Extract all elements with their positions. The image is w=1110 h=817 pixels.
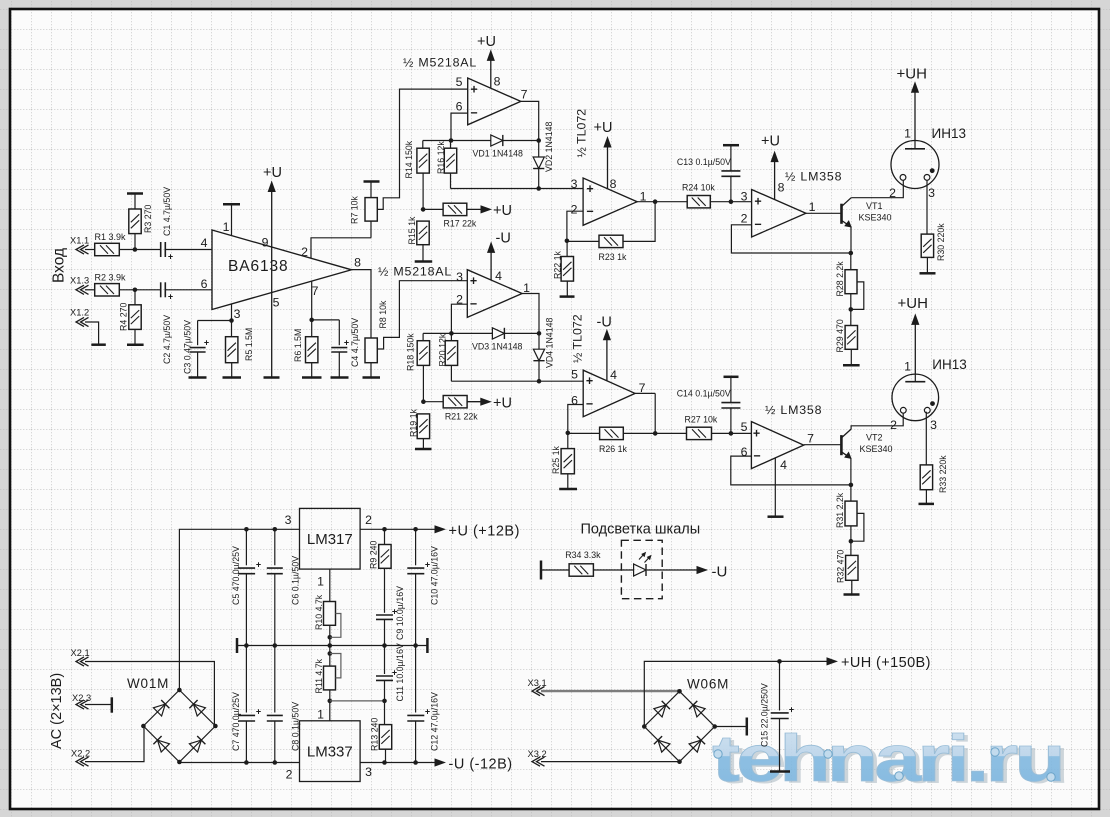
power +U arrow U3a xyxy=(594,120,613,189)
pin 2 feedback wire U4a xyxy=(731,225,853,256)
wire +UH rail xyxy=(644,659,828,726)
svg-text:6: 6 xyxy=(201,277,208,291)
nixie tube HL2 IN-13 xyxy=(892,357,967,421)
svg-text:R31 2.2k: R31 2.2k xyxy=(835,492,845,528)
svg-text:1: 1 xyxy=(904,359,911,373)
svg-text:R10 4.7k: R10 4.7k xyxy=(314,594,324,630)
svg-text:2: 2 xyxy=(890,418,897,432)
svg-text:+U: +U xyxy=(477,34,496,50)
wire LM317 adj xyxy=(329,569,331,601)
wire +12V input rail xyxy=(179,527,299,690)
svg-text:C6 0.1µ/50V: C6 0.1µ/50V xyxy=(291,556,301,605)
wire VD1 to output xyxy=(503,138,541,143)
svg-text:4: 4 xyxy=(780,458,787,472)
svg-text:AC (2×13В): AC (2×13В) xyxy=(49,673,65,749)
svg-text:1: 1 xyxy=(223,220,230,234)
output wire U4a xyxy=(806,212,841,214)
power +U(+12V) arrow xyxy=(435,524,520,540)
pin 6 wire U2a xyxy=(449,113,468,143)
svg-text:5: 5 xyxy=(741,420,748,434)
svg-text:2: 2 xyxy=(286,767,293,781)
op-amp U3a 1/2 TL072 xyxy=(575,109,638,226)
svg-text:1: 1 xyxy=(904,126,911,140)
svg-text:7: 7 xyxy=(639,381,646,395)
capacitor C10 47.0u/16V xyxy=(407,529,439,645)
svg-text:R22 1k: R22 1k xyxy=(553,251,563,279)
svg-text:+U: +U xyxy=(493,396,512,412)
resistor R17 22k xyxy=(423,203,477,228)
power +U arrow U2a xyxy=(477,34,496,88)
power +U arrow U4a xyxy=(761,134,780,200)
wire to TL072-2 pin5 xyxy=(451,380,583,382)
wire R28 tap xyxy=(851,282,864,310)
tube HL1 pin labels xyxy=(889,126,935,200)
resistor R15 1k xyxy=(407,216,432,261)
VT2 collector wire xyxy=(851,412,903,430)
terminal bar backlight xyxy=(541,561,569,580)
connector X2.1 xyxy=(71,648,215,726)
svg-text:½ TL072: ½ TL072 xyxy=(571,314,585,363)
svg-text:R13 240: R13 240 xyxy=(370,718,380,751)
svg-text:-U: -U xyxy=(597,315,612,331)
pin 6 label xyxy=(201,277,208,291)
svg-text:1: 1 xyxy=(523,281,530,295)
svg-text:R33 220k: R33 220k xyxy=(938,455,948,493)
svg-text:½ M5218AL: ½ M5218AL xyxy=(378,265,452,279)
svg-text:C14 0.1µ/50V: C14 0.1µ/50V xyxy=(677,388,731,398)
wire R2 to C2 xyxy=(119,288,160,293)
svg-text:+U: +U xyxy=(493,203,512,219)
svg-text:2: 2 xyxy=(365,513,372,527)
svg-text:VD4 1N4148: VD4 1N4148 xyxy=(545,318,555,368)
capacitor C6 0.1u/50V xyxy=(267,529,301,645)
svg-text:R18 150k: R18 150k xyxy=(406,333,416,371)
LED HL3 with dashed box xyxy=(621,540,662,598)
regulator LM337 xyxy=(300,721,361,782)
svg-text:+: + xyxy=(204,338,209,348)
svg-text:+: + xyxy=(753,426,760,440)
svg-text:X2.1: X2.1 xyxy=(71,648,90,658)
resistor R31 2.2k xyxy=(835,485,857,544)
connector X3.1 xyxy=(528,678,680,696)
power -U arrow U2b xyxy=(488,231,511,281)
svg-text:ИН13: ИН13 xyxy=(932,126,966,141)
svg-text:+: + xyxy=(789,705,794,715)
resistor R20 12k xyxy=(438,333,458,381)
pin 1 terminal xyxy=(223,204,240,235)
wire LED to -U xyxy=(647,569,697,571)
svg-text:LM317: LM317 xyxy=(307,531,353,548)
connector X1.2 xyxy=(70,308,106,345)
svg-text:−: − xyxy=(586,397,593,411)
output wire U2b xyxy=(522,294,539,334)
resistor R34 3.3k xyxy=(565,550,601,576)
svg-text:BA6138: BA6138 xyxy=(228,258,289,275)
capacitor C13 0.1u/50V xyxy=(677,145,741,202)
wire R10 tap xyxy=(330,614,341,638)
svg-text:R8 10k: R8 10k xyxy=(378,300,388,328)
power +U arrow BA6138 pin 9 xyxy=(262,165,282,378)
svg-text:C7 470.0µ/25V: C7 470.0µ/25V xyxy=(231,692,241,751)
svg-text:R24 10k: R24 10k xyxy=(682,183,715,193)
wire mid ground rail xyxy=(237,638,427,653)
svg-text:2: 2 xyxy=(741,211,748,225)
svg-text:R16 12k: R16 12k xyxy=(436,141,446,174)
wire R10 to R11 xyxy=(328,637,333,666)
svg-text:+U: +U xyxy=(761,134,780,150)
svg-text:1: 1 xyxy=(809,200,816,214)
svg-text:+: + xyxy=(586,182,593,196)
watermark tehnari.ru xyxy=(712,721,1066,797)
svg-text:X1.3: X1.3 xyxy=(70,276,89,286)
resistor R1 3.9k xyxy=(95,232,127,256)
svg-text:8: 8 xyxy=(610,177,617,191)
wire R31 tap xyxy=(851,513,864,541)
svg-text:R4 270: R4 270 xyxy=(119,303,129,331)
svg-text:+: + xyxy=(168,252,173,262)
pin labels U2b xyxy=(456,269,530,307)
pin 4 ground U4b xyxy=(768,458,784,517)
power -U arrow U3b xyxy=(597,315,612,381)
svg-text:8: 8 xyxy=(494,74,501,88)
svg-text:R30 220k: R30 220k xyxy=(936,223,946,261)
svg-text:R3 270: R3 270 xyxy=(143,205,153,233)
svg-text:3: 3 xyxy=(928,186,935,200)
resistor R3 270 xyxy=(127,194,153,250)
resistor R16 12k xyxy=(436,141,457,189)
svg-text:½ TL072: ½ TL072 xyxy=(575,109,589,158)
wire to TL072 pin3 xyxy=(451,188,584,190)
svg-text:−: − xyxy=(470,297,477,311)
wire -12V rail xyxy=(179,760,436,765)
wire feedback row U2b xyxy=(423,332,492,334)
power -U arrow backlight xyxy=(697,564,727,581)
svg-text:R17 22k: R17 22k xyxy=(444,219,477,229)
svg-text:4: 4 xyxy=(610,368,617,382)
tube HL2 pin labels xyxy=(890,359,937,432)
svg-text:C4 4.7µ/50V: C4 4.7µ/50V xyxy=(350,318,360,367)
svg-text:−: − xyxy=(470,106,477,120)
diode VD1 1N4148 xyxy=(473,135,523,159)
resistor R10 4.7k xyxy=(314,594,336,639)
pin labels U4b xyxy=(741,420,815,472)
svg-text:5: 5 xyxy=(571,367,578,381)
svg-text:+U: +U xyxy=(263,165,282,181)
op-amp U4a 1/2 LM358 xyxy=(752,170,843,238)
resistor R29 470 xyxy=(835,309,860,365)
svg-text:R25 1k: R25 1k xyxy=(551,446,561,474)
resistor R27 10k xyxy=(685,415,718,440)
svg-text:VT2: VT2 xyxy=(866,433,883,443)
svg-text:−: − xyxy=(754,217,761,231)
svg-text:2: 2 xyxy=(889,186,896,200)
svg-text:5: 5 xyxy=(273,295,280,309)
wire C1 to pin4 xyxy=(165,249,212,251)
svg-text:½ LM358: ½ LM358 xyxy=(765,403,822,417)
op-amp U3b 1/2 TL072 xyxy=(571,314,636,416)
svg-text:VT1: VT1 xyxy=(866,201,883,211)
svg-text:C9 10.0µ/16V: C9 10.0µ/16V xyxy=(395,586,405,640)
svg-text:X1.2: X1.2 xyxy=(70,308,89,318)
resistor R7 10k xyxy=(350,182,380,238)
svg-text:8: 8 xyxy=(354,255,361,269)
svg-text:+: + xyxy=(168,292,173,302)
VT2 emitter wire xyxy=(850,458,852,485)
svg-text:R9 240: R9 240 xyxy=(369,541,379,569)
pin 6 wire U3b xyxy=(566,405,584,436)
svg-text:3: 3 xyxy=(365,765,372,779)
wire R8 tap to M5218AL-2 pin3 xyxy=(377,281,467,349)
pin 7 node xyxy=(309,281,318,322)
transistor VT2 KSE340 xyxy=(841,429,892,458)
svg-text:R29 470: R29 470 xyxy=(835,319,845,352)
LM317 pin labels xyxy=(285,513,373,589)
svg-text:7: 7 xyxy=(521,87,528,101)
diode VD4 1N4148 xyxy=(533,318,554,384)
svg-text:R32 470: R32 470 xyxy=(836,550,846,583)
svg-text:LM337: LM337 xyxy=(307,743,353,760)
resistor R33 220k xyxy=(919,455,949,504)
svg-text:-U: -U xyxy=(712,564,728,581)
op-amp U2b 1/2 M5218AL xyxy=(378,265,522,318)
capacitor C2 4.7u/50V xyxy=(161,282,173,364)
svg-text:R20 12k: R20 12k xyxy=(438,333,448,366)
output wire U3a xyxy=(637,201,687,203)
svg-text:ИН13: ИН13 xyxy=(932,357,966,372)
svg-text:7: 7 xyxy=(807,431,814,445)
resistor R11 4.7k xyxy=(314,658,336,720)
svg-text:1: 1 xyxy=(317,574,324,588)
svg-text:+UH: +UH xyxy=(898,295,928,312)
wire R11 to C11 junction xyxy=(330,700,385,702)
svg-text:R11 4.7k: R11 4.7k xyxy=(314,658,324,693)
svg-text:4: 4 xyxy=(201,236,208,250)
svg-text:½ LM358: ½ LM358 xyxy=(785,170,842,184)
svg-text:Подсветка шкалы: Подсветка шкалы xyxy=(581,522,701,538)
svg-text:+U (+12В): +U (+12В) xyxy=(449,524,520,540)
svg-text:−: − xyxy=(753,449,760,463)
svg-text:2: 2 xyxy=(301,245,308,259)
VT1 collector wire xyxy=(851,180,903,197)
svg-text:R34 3.3k: R34 3.3k xyxy=(565,550,601,560)
resistor R30 220k xyxy=(920,223,947,274)
svg-text:C11 10.0µ/16V: C11 10.0µ/16V xyxy=(395,643,405,701)
wire W06M minus terminal xyxy=(713,718,747,736)
svg-text:R6 1.5M: R6 1.5M xyxy=(293,329,303,362)
svg-text:2: 2 xyxy=(571,202,578,216)
output wire U3b xyxy=(635,393,686,433)
resistor R4 270 xyxy=(119,290,144,345)
pin 6 feedback wire U4b xyxy=(731,456,853,487)
svg-text:-U: -U xyxy=(496,231,511,247)
capacitor C9 10.0u/16V xyxy=(376,586,405,646)
svg-text:−: − xyxy=(586,204,593,218)
svg-text:8: 8 xyxy=(778,180,785,194)
svg-text:+: + xyxy=(586,374,593,388)
node Вход label xyxy=(51,248,68,283)
svg-text:-U (-12В): -U (-12В) xyxy=(449,757,513,773)
capacitor C8 0.1u/50V xyxy=(267,646,301,763)
capacitor C11 10.0u/16V xyxy=(376,643,405,703)
svg-text:KSE340: KSE340 xyxy=(860,444,893,454)
connector X3.2 xyxy=(528,749,680,766)
wire R26 to output node xyxy=(623,393,657,435)
op-amp U4b 1/2 LM358 xyxy=(751,403,822,469)
svg-text:R7 10k: R7 10k xyxy=(350,196,360,224)
resistor R32 470 xyxy=(836,541,860,594)
resistor R22 1k xyxy=(553,241,575,297)
svg-text:R14 150k: R14 150k xyxy=(404,140,414,178)
svg-text:X1.1: X1.1 xyxy=(70,236,89,246)
svg-text:+UH: +UH xyxy=(897,66,927,83)
svg-text:R28 2.2k: R28 2.2k xyxy=(835,261,845,297)
node AC label xyxy=(49,673,65,749)
power +UH arrow tube HL2 xyxy=(898,295,928,374)
svg-text:C1 4.7µ/50V: C1 4.7µ/50V xyxy=(162,187,172,236)
svg-text:+: + xyxy=(256,560,261,570)
resistor R28 2.2k xyxy=(835,253,857,312)
power +UH arrow tube HL1 xyxy=(897,66,927,141)
power +U arrow after R17 xyxy=(467,203,512,219)
resistor R23 1k xyxy=(567,235,627,262)
svg-text:+: + xyxy=(344,338,349,348)
svg-text:VD2 1N4148: VD2 1N4148 xyxy=(544,122,554,172)
connector X2.2 xyxy=(71,726,144,766)
svg-text:W06M: W06M xyxy=(687,677,729,692)
svg-text:½ M5218AL: ½ M5218AL xyxy=(403,56,477,70)
svg-text:6: 6 xyxy=(456,99,463,113)
connector X2.3 xyxy=(72,693,112,713)
svg-text:4: 4 xyxy=(495,269,502,283)
pin 2 wire U3a xyxy=(565,211,583,243)
svg-text:C15 22.0µ/250V: C15 22.0µ/250V xyxy=(760,683,770,747)
svg-text:R26 1k: R26 1k xyxy=(599,444,627,454)
svg-text:5: 5 xyxy=(456,75,463,89)
output wire U2a xyxy=(521,101,539,140)
pin labels U4a xyxy=(741,180,816,225)
tube HL2 pin 3 wire xyxy=(925,412,927,465)
svg-text:R19 1k: R19 1k xyxy=(409,409,419,437)
pin 2 wire U2b xyxy=(449,304,467,336)
power -U(-12V) arrow xyxy=(435,757,513,773)
wire R11 tap xyxy=(330,654,341,678)
diode VD3 1N4148 xyxy=(472,328,522,352)
resistor R9 240 xyxy=(369,529,392,613)
wire C2 to pin6 xyxy=(165,289,212,291)
svg-text:+U: +U xyxy=(594,120,613,136)
wire R23 to output node xyxy=(623,199,657,241)
power +U arrow after R21 xyxy=(467,396,512,412)
resistor R18 150k xyxy=(406,333,430,404)
svg-text:3: 3 xyxy=(285,513,292,527)
svg-text:3: 3 xyxy=(930,418,937,432)
svg-text:R23 1k: R23 1k xyxy=(599,252,627,262)
wire R1 to C1 xyxy=(119,247,160,252)
wire +12V output rail xyxy=(360,527,436,532)
nixie tube HL1 IN-13 xyxy=(891,126,966,189)
svg-text:9: 9 xyxy=(262,235,269,249)
capacitor C15 22.0u/250V xyxy=(760,661,795,771)
bridge rectifier VD6 W06M xyxy=(642,677,729,765)
resistor R21 22k xyxy=(423,396,478,422)
svg-text:R15 1k: R15 1k xyxy=(407,216,417,244)
svg-text:R21 22k: R21 22k xyxy=(445,412,478,422)
svg-text:KSE340: KSE340 xyxy=(859,213,892,223)
svg-text:+: + xyxy=(256,707,261,717)
svg-text:1: 1 xyxy=(317,707,324,721)
svg-text:3: 3 xyxy=(456,270,463,284)
capacitor C5 470.0u/25V xyxy=(231,529,261,645)
pin labels U2a xyxy=(456,74,528,113)
svg-text:W01M: W01M xyxy=(127,676,169,691)
wire feedback row U2a xyxy=(423,140,491,142)
op-amp U1 BA6138 xyxy=(212,230,352,310)
capacitor C7 470.0u/25V xyxy=(231,646,261,763)
svg-text:C10 47.0µ/16V: C10 47.0µ/16V xyxy=(430,546,440,605)
svg-text:C3 0.47µ/50V: C3 0.47µ/50V xyxy=(183,320,193,374)
svg-text:3: 3 xyxy=(571,177,578,191)
resistor R5 1.5M xyxy=(223,321,255,378)
pin labels U3a xyxy=(571,177,647,217)
svg-text:3: 3 xyxy=(741,189,748,203)
svg-text:+UH (+150В): +UH (+150В) xyxy=(841,655,931,671)
resistor R24 10k xyxy=(682,183,715,208)
svg-text:Вход: Вход xyxy=(51,248,68,283)
svg-text:C13 0.1µ/50V: C13 0.1µ/50V xyxy=(677,157,731,167)
output wire U4b xyxy=(804,444,841,446)
resistor R13 240 xyxy=(370,701,392,763)
bridge rectifier VD5 W01M xyxy=(127,676,218,764)
pin labels U3b xyxy=(571,367,646,407)
connector X1.1 xyxy=(70,236,95,255)
svg-text:6: 6 xyxy=(571,393,578,407)
resistor R26 1k xyxy=(568,427,628,454)
svg-text:C5 470.0µ/25V: C5 470.0µ/25V xyxy=(231,546,241,605)
svg-text:7: 7 xyxy=(312,284,319,298)
svg-text:3: 3 xyxy=(234,307,241,321)
pin 2 wire xyxy=(301,238,371,259)
wire R27 to LM358-2 pin5 xyxy=(712,431,752,436)
svg-text:C2 4.7µ/50V: C2 4.7µ/50V xyxy=(162,315,172,364)
op-amp U2a 1/2 M5218AL xyxy=(403,56,521,125)
resistor R25 1k xyxy=(551,433,577,489)
svg-text:+: + xyxy=(470,82,477,96)
capacitor C14 0.1u/50V xyxy=(677,377,741,434)
wire R34 to LED xyxy=(594,569,634,571)
capacitor C4 4.7u/50V xyxy=(312,318,360,378)
transistor VT1 KSE340 xyxy=(842,198,892,227)
wire R24 to LM358 pin3 xyxy=(710,199,751,204)
resistor R2 3.9k xyxy=(95,273,127,297)
capacitor C1 4.7u/50V xyxy=(161,187,173,262)
regulator LM317 xyxy=(300,508,361,569)
svg-text:C8 0.1µ/50V: C8 0.1µ/50V xyxy=(291,702,301,751)
LM337 pin labels xyxy=(286,707,373,781)
svg-text:+: + xyxy=(470,274,477,288)
tube HL1 pin 3 wire xyxy=(926,180,928,234)
wire VD3 to output xyxy=(504,331,541,336)
svg-text:R1 3.9k: R1 3.9k xyxy=(95,232,127,242)
pin 3 node xyxy=(198,304,241,323)
capacitor C12 47.0u/16V xyxy=(407,646,439,763)
node Подсветка шкалы label xyxy=(581,522,701,538)
svg-text:R5 1.5M: R5 1.5M xyxy=(244,328,254,361)
svg-text:VD1 1N4148: VD1 1N4148 xyxy=(473,149,523,159)
svg-text:R2 3.9k: R2 3.9k xyxy=(95,273,127,283)
wire R7 tap to M5218AL pin5 xyxy=(377,89,467,209)
svg-text:VD3 1N4148: VD3 1N4148 xyxy=(472,342,522,352)
resistor R14 150k xyxy=(404,140,429,211)
